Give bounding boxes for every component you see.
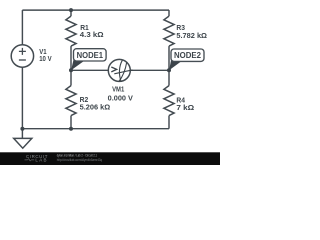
svg-text:NODE2: NODE2 xyxy=(174,51,202,60)
node NODE2 callout xyxy=(169,49,204,70)
wire R3 bottom stem to node B xyxy=(168,46,170,70)
resistor R1 xyxy=(66,16,76,46)
svg-text:R3: R3 xyxy=(176,25,185,32)
node NODE1 callout xyxy=(71,49,106,71)
svg-text:NODE1: NODE1 xyxy=(77,51,104,60)
junction dot top (R1/top rail) xyxy=(69,8,73,12)
wire R1 top stem xyxy=(70,10,72,16)
wire R1 bottom stem to node A xyxy=(70,46,72,70)
wire ground stub xyxy=(21,129,23,139)
ground xyxy=(14,138,32,148)
wire R2 top stem xyxy=(70,70,72,85)
svg-text:R1: R1 xyxy=(80,25,89,32)
wire node A to voltmeter left terminal xyxy=(71,69,108,71)
wire voltmeter right terminal to node B xyxy=(130,69,169,71)
svg-text:LAB: LAB xyxy=(35,157,47,162)
svg-text:4.3 kΩ: 4.3 kΩ xyxy=(80,32,104,39)
svg-text:VM1: VM1 xyxy=(112,87,124,94)
voltage source V1 xyxy=(11,45,33,67)
wire bottom rail xyxy=(22,128,169,130)
junction node A (R1/R2/voltmeter) xyxy=(69,68,73,72)
wire left rail lower (V1 - to bottom rail) xyxy=(21,67,23,129)
svg-text:5.206 kΩ: 5.206 kΩ xyxy=(80,105,111,112)
wire R2 bottom stem xyxy=(70,116,72,129)
svg-text:10 V: 10 V xyxy=(39,56,52,63)
svg-text:http:∕∕circuitlab.com∕c8ym4b5a: http:∕∕circuitlab.com∕c8ym4b5amr43q xyxy=(57,158,102,162)
resistor R2 xyxy=(66,86,76,116)
junction dot ground (left rail/bottom rail) xyxy=(20,127,24,131)
wire R4 bottom stem xyxy=(168,116,170,129)
voltmeter VM1 xyxy=(108,59,130,81)
resistor R4 xyxy=(164,86,174,116)
svg-text:5.782 kΩ: 5.782 kΩ xyxy=(176,33,207,40)
svg-text:R4: R4 xyxy=(176,97,185,104)
wire R4 top stem xyxy=(168,70,170,85)
wire left rail upper (top rail to V1 +) xyxy=(21,10,23,45)
svg-text:7 kΩ: 7 kΩ xyxy=(176,105,194,112)
junction dot bottom (R2/bottom rail) xyxy=(69,127,73,131)
wire top rail xyxy=(22,9,169,11)
svg-text:R2: R2 xyxy=(80,97,89,104)
svg-text:0.000 V: 0.000 V xyxy=(108,95,134,102)
junction node B (R3/R4/voltmeter) xyxy=(167,68,171,72)
watermark banner xyxy=(0,152,220,165)
resistor R3 xyxy=(164,16,174,46)
wire R3 top stem xyxy=(168,10,170,16)
